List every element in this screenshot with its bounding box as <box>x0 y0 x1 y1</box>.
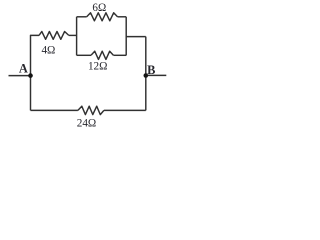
node A junction dot <box>28 73 33 78</box>
resistor R2 6Ω <box>87 13 118 21</box>
wire: bottom-left lead of 12Ω <box>77 54 91 56</box>
wire: left terminal stub into node A <box>9 75 31 77</box>
wire: bottom branch right segment to B vertical <box>104 109 146 111</box>
wire: top-left lead of 6Ω <box>77 16 87 18</box>
svg-text:12Ω: 12Ω <box>88 60 108 72</box>
resistor R1 4Ω <box>39 32 69 40</box>
svg-text:A: A <box>19 62 28 76</box>
wire: parallel box left vertical (junction of 6Ω and 12Ω) <box>76 17 78 56</box>
wire: top-right lead of 6Ω <box>118 16 127 18</box>
wire: bottom branch left segment from A vertical <box>31 109 78 111</box>
wire: right terminal stub from node B <box>146 74 167 76</box>
wire: tap from parallel box to right vertical <box>126 36 146 38</box>
wire: 4-ohm branch to parallel-box left node <box>69 34 77 36</box>
wire: right vertical through node B down to bottom branch <box>145 37 147 111</box>
resistor R3 12Ω <box>91 51 113 59</box>
svg-text:24Ω: 24Ω <box>77 117 97 129</box>
wire: left vertical from 4-ohm branch through node A down to bottom branch <box>31 35 40 110</box>
node B junction dot <box>144 73 149 78</box>
wire: parallel box right vertical (junction of 6Ω and 12Ω) <box>125 17 127 56</box>
wire: bottom-right lead of 12Ω <box>113 54 126 56</box>
svg-text:6Ω: 6Ω <box>92 2 106 14</box>
svg-text:B: B <box>147 63 155 77</box>
resistor R4 24Ω <box>78 106 104 114</box>
svg-text:4Ω: 4Ω <box>41 45 55 57</box>
